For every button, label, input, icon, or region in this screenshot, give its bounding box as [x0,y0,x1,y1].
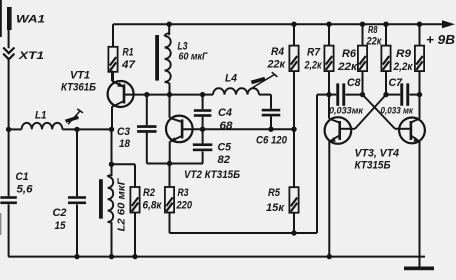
svg-text:C2: C2 [53,207,68,219]
svg-text:60 мкГ: 60 мкГ [179,52,209,63]
svg-text:R9: R9 [396,48,412,60]
svg-text:L1: L1 [35,110,47,122]
svg-text:КТ361Б: КТ361Б [61,82,96,94]
svg-text:VT3, VT4: VT3, VT4 [355,148,400,160]
svg-text:5,6: 5,6 [17,184,34,196]
svg-text:2,2к: 2,2к [393,61,414,73]
svg-text:0,033мк: 0,033мк [329,106,364,116]
svg-text:R4: R4 [271,46,285,58]
svg-text:R3: R3 [178,187,190,199]
svg-text:R1: R1 [123,47,134,59]
svg-text:C3: C3 [117,126,131,138]
svg-text:R6: R6 [342,48,357,60]
svg-text:L4: L4 [225,73,238,85]
svg-text:0,033 мк: 0,033 мк [381,106,415,116]
svg-text:C1: C1 [16,171,29,183]
svg-text:VT1: VT1 [70,70,90,82]
svg-text:L2 60 мкГ: L2 60 мкГ [117,177,128,231]
svg-text:C7: C7 [389,77,403,89]
svg-text:R5: R5 [268,187,281,199]
svg-text:2,2к: 2,2к [304,60,323,72]
svg-text:22к: 22к [267,59,287,71]
svg-text:WA1: WA1 [16,14,45,26]
svg-text:VT2 КТ315Б: VT2 КТ315Б [184,169,240,181]
svg-text:15: 15 [55,220,67,232]
svg-text:47: 47 [121,59,136,71]
svg-text:22к: 22к [337,61,358,73]
svg-text:C4: C4 [218,107,233,119]
svg-text:22к: 22к [366,36,383,48]
svg-text:18: 18 [119,138,131,150]
svg-text:XT1: XT1 [18,50,44,62]
svg-text:6,8к: 6,8к [143,200,163,212]
svg-text:R7: R7 [307,47,321,59]
svg-text:220: 220 [176,200,193,212]
svg-text:15к: 15к [266,202,285,214]
svg-text:R2: R2 [143,187,156,199]
svg-text:C5: C5 [218,142,232,154]
svg-text:+ 9В: + 9В [426,33,455,47]
svg-text:C6 120: C6 120 [256,135,288,147]
svg-text:C8: C8 [347,77,361,89]
svg-text:КТ315Б: КТ315Б [355,160,391,172]
svg-text:82: 82 [218,154,231,166]
svg-text:R8: R8 [368,25,378,36]
